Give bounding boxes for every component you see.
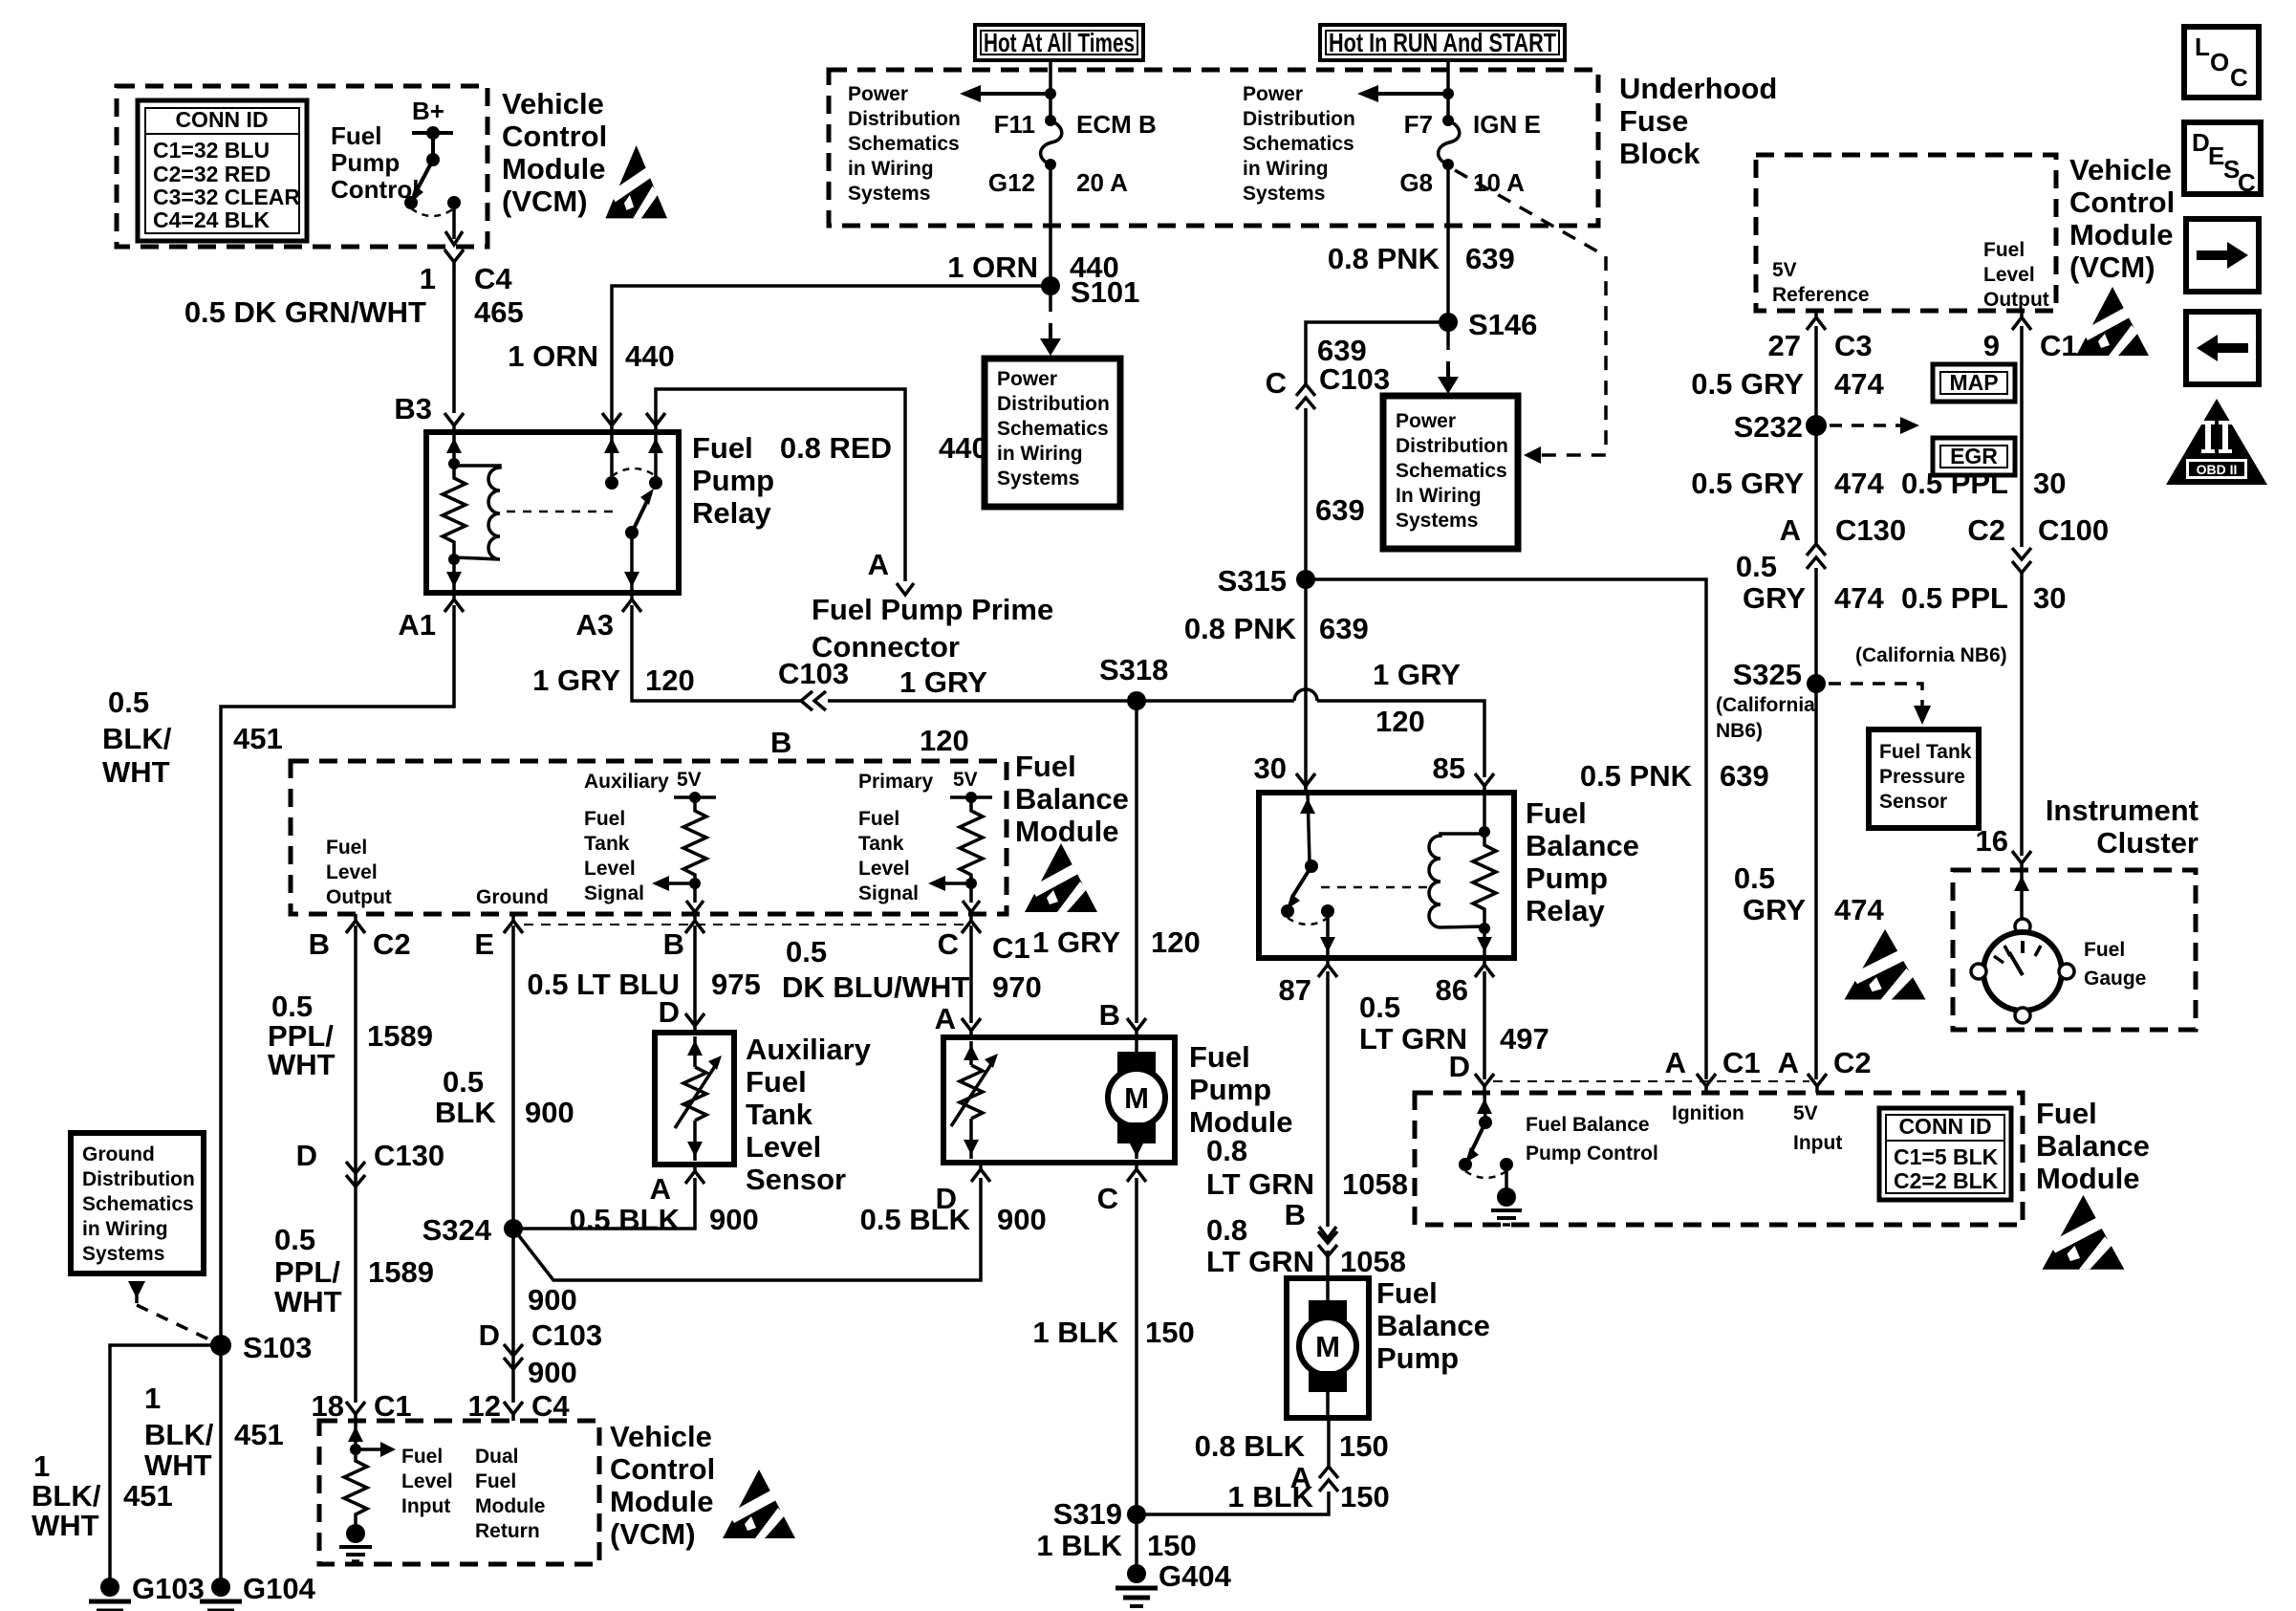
svg-text:Ground: Ground (82, 1143, 155, 1165)
svg-text:S319: S319 (1053, 1497, 1122, 1531)
svg-text:975: 975 (711, 968, 761, 1001)
fuel pump motor (1135, 1037, 1138, 1059)
svg-text:A: A (1778, 1046, 1799, 1079)
svg-text:Fuel: Fuel (331, 121, 381, 150)
svg-text:Control: Control (610, 1452, 715, 1486)
svg-text:Pump: Pump (1526, 861, 1608, 895)
wire 497 LT GRN (relay 86 to module D) (1483, 971, 1486, 1079)
box Power Distribution Schematics In Wiring Systems (right) (1383, 396, 1518, 549)
svg-text:in Wiring: in Wiring (997, 443, 1083, 465)
svg-text:B: B (770, 726, 791, 759)
svg-text:30: 30 (1254, 751, 1287, 785)
svg-text:Systems: Systems (997, 468, 1079, 490)
module box Instrument Cluster (dashed) (1953, 870, 2196, 1030)
svg-text:NB6): NB6) (1716, 720, 1763, 742)
svg-text:Vehicle: Vehicle (502, 87, 604, 120)
svg-text:Signal: Signal (858, 882, 919, 904)
svg-text:Fuel: Fuel (1015, 750, 1076, 783)
wire 120 GRY from A1 down-left (221, 605, 454, 1340)
pin A aux sensor (685, 1165, 704, 1184)
svg-text:(VCM): (VCM) (610, 1517, 696, 1551)
svg-text:639: 639 (1319, 612, 1369, 645)
svg-text:A: A (1290, 1461, 1311, 1494)
svg-text:474: 474 (1834, 893, 1884, 926)
svg-text:639: 639 (1720, 759, 1769, 793)
box arrow right (2186, 219, 2259, 292)
module box Fuel Pump Module (943, 1037, 1175, 1163)
svg-text:0.8 BLK: 0.8 BLK (1195, 1429, 1306, 1463)
box Power Distribution Schematics in Wiring Systems (left) (985, 359, 1120, 507)
svg-text:B+: B+ (412, 97, 444, 125)
svg-text:Fuel: Fuel (2036, 1097, 2097, 1130)
resistor (FBP relay) (1473, 834, 1496, 926)
branch arrow left (IGN E) (1378, 92, 1448, 96)
svg-text:Auxiliary: Auxiliary (746, 1033, 872, 1066)
svg-text:C103: C103 (531, 1318, 602, 1352)
svg-text:Fuel: Fuel (1189, 1040, 1250, 1074)
svg-text:1 ORN: 1 ORN (508, 339, 598, 373)
svg-text:Pump: Pump (1376, 1341, 1459, 1375)
hop over 639 wire (1294, 689, 1317, 701)
label Fuel Level Output (VCM) (1983, 239, 2049, 311)
svg-text:900: 900 (528, 1283, 577, 1317)
pin 27 C3 (1807, 311, 1826, 330)
svg-text:0.5: 0.5 (1734, 861, 1775, 895)
wire label 0.5 BLK/WHT 451 (102, 686, 283, 789)
svg-text:in Wiring: in Wiring (82, 1218, 168, 1240)
svg-text:0.5 BLK: 0.5 BLK (570, 1203, 681, 1236)
wire 1058 LT GRN (relay 87 to pump B) (1326, 971, 1330, 1227)
dashed reference line to S103 (137, 1305, 215, 1342)
box MAP (1933, 364, 2015, 402)
svg-text:Module: Module (610, 1485, 714, 1518)
svg-text:A: A (868, 548, 889, 581)
svg-text:Power: Power (848, 83, 908, 105)
svg-text:1 GRY: 1 GRY (1032, 925, 1120, 959)
box Ground Distribution Schematics in Wiring Systems (71, 1133, 204, 1274)
ESD symbol (instrument cluster) (1844, 929, 1925, 999)
svg-text:0.8 PNK: 0.8 PNK (1328, 242, 1440, 275)
svg-text:WHT: WHT (144, 1448, 212, 1482)
svg-text:Signal: Signal (584, 882, 644, 904)
svg-text:150: 150 (1339, 1429, 1389, 1463)
svg-text:1 BLK: 1 BLK (1032, 1316, 1118, 1349)
svg-text:Balance: Balance (1526, 829, 1639, 862)
svg-text:0.5: 0.5 (274, 1223, 315, 1256)
svg-text:1 GRY: 1 GRY (532, 664, 620, 697)
wire label 0.5 LT GRN 497 (1359, 991, 1549, 1056)
wire label 0.8 LT GRN 1058 (87) (1206, 1134, 1408, 1201)
svg-text:30: 30 (2033, 581, 2066, 615)
node S318 (1127, 691, 1146, 710)
connector A (fuel balance pump) (1319, 1467, 1338, 1491)
svg-text:A: A (1780, 513, 1801, 547)
wire label 0.5 GRY 474 (4) (1734, 861, 1885, 926)
svg-text:Distribution: Distribution (82, 1168, 195, 1190)
svg-text:B3: B3 (394, 392, 432, 425)
svg-text:0.5: 0.5 (1736, 550, 1777, 583)
arrow below ground distribution box (128, 1281, 145, 1298)
svg-text:A3: A3 (575, 608, 614, 642)
svg-text:Vehicle: Vehicle (610, 1420, 712, 1453)
svg-text:C: C (938, 927, 959, 961)
relay box Fuel Balance Pump Relay (1259, 793, 1514, 958)
svg-text:A: A (650, 1172, 671, 1206)
svg-text:Distribution: Distribution (1396, 435, 1508, 457)
svg-text:C2: C2 (373, 927, 411, 961)
svg-text:Input: Input (1793, 1132, 1842, 1154)
svg-text:WHT: WHT (102, 755, 170, 789)
svg-text:OBD II: OBD II (2197, 462, 2238, 477)
node S325 (1807, 674, 1826, 693)
svg-text:C130: C130 (1835, 513, 1906, 547)
svg-text:Level: Level (858, 858, 910, 880)
svg-text:Balance: Balance (1376, 1309, 1490, 1342)
svg-text:BLK: BLK (435, 1096, 496, 1129)
label Power Distribution Schematics (right, in fuse block) (1243, 83, 1355, 205)
svg-text:Level: Level (746, 1130, 821, 1164)
svg-text:WHT: WHT (268, 1048, 336, 1081)
svg-text:150: 150 (1340, 1480, 1390, 1513)
svg-text:DK BLU/WHT: DK BLU/WHT (782, 970, 969, 1004)
svg-text:0.8 PNK: 0.8 PNK (1184, 612, 1297, 645)
svg-text:C103: C103 (1319, 362, 1390, 396)
svg-text:900: 900 (997, 1203, 1047, 1236)
svg-text:Fuel: Fuel (746, 1065, 807, 1099)
resistor (relay suppression) (443, 464, 466, 559)
svg-text:Sensor: Sensor (1879, 791, 1947, 813)
ESD symbol (VCM bottom) (723, 1469, 795, 1538)
wire S319 to G404 (1135, 1514, 1138, 1565)
svg-text:Fuel: Fuel (2084, 939, 2125, 961)
svg-text:F7: F7 (1404, 110, 1433, 139)
svg-text:Fuel: Fuel (401, 1446, 443, 1468)
ground G104 (200, 1578, 242, 1611)
svg-text:0.5 GRY: 0.5 GRY (1691, 367, 1804, 401)
wire label 1 BLK/WHT 451 (G103 leg) (32, 1449, 173, 1542)
switch fuel balance pump control (1459, 1093, 1522, 1225)
svg-text:1 GRY: 1 GRY (899, 665, 987, 699)
module box VCM top-right (dashed) (1756, 155, 2056, 311)
svg-text:Balance: Balance (1015, 782, 1129, 816)
svg-text:C100: C100 (2038, 513, 2109, 547)
svg-text:C1: C1 (992, 931, 1030, 965)
svg-text:WHT: WHT (32, 1509, 99, 1542)
svg-text:1589: 1589 (367, 1019, 433, 1053)
svg-text:Distribution: Distribution (1243, 108, 1355, 130)
wire 900 BLK (E to S324) (511, 925, 515, 1229)
module box Fuel Balance Module bottom (dashed) (1415, 1093, 2023, 1225)
svg-text:Tank: Tank (858, 833, 904, 855)
wire 474 GRY (S325 to module A/C2) (1814, 684, 1818, 1079)
svg-text:Control: Control (2069, 185, 2175, 219)
svg-text:A1: A1 (398, 608, 436, 642)
svg-text:474: 474 (1834, 467, 1884, 500)
wire 120 GRY S318 down to fuel pump module pin B (1135, 701, 1138, 1023)
svg-text:L: L (2195, 33, 2210, 61)
svg-text:18: 18 (312, 1389, 344, 1423)
svg-text:Output: Output (1983, 289, 2049, 311)
wire 150 BLK (C to S319) (1135, 1178, 1138, 1514)
fuel balance pump motor (1326, 1278, 1330, 1308)
svg-text:Pressure: Pressure (1879, 766, 1965, 788)
svg-text:Schematics: Schematics (997, 418, 1109, 440)
ground G404 (1116, 1564, 1158, 1606)
svg-text:Fuel: Fuel (475, 1470, 516, 1492)
svg-text:Fuel: Fuel (584, 808, 625, 830)
wire label 0.5 GRY 474 (3) (1736, 550, 1885, 615)
label Fuel Balance Module (1015, 750, 1129, 848)
svg-text:B: B (663, 927, 684, 961)
svg-text:Pump: Pump (331, 148, 400, 177)
svg-text:Balance: Balance (2036, 1129, 2150, 1163)
svg-text:Hot In RUN And START: Hot In RUN And START (1329, 28, 1556, 57)
dashed actuation link (FBP relay) (1321, 886, 1428, 889)
label Power Distribution Schematics (left, in fuse block) (848, 83, 961, 205)
wire 970 DK BLU/WHT (pin C/C1 to module A) (969, 925, 973, 1023)
svg-text:C: C (1097, 1182, 1118, 1215)
svg-text:Level: Level (1983, 264, 2035, 286)
svg-text:Schematics: Schematics (1243, 133, 1354, 155)
svg-text:D: D (296, 1139, 317, 1172)
node S319 (1127, 1505, 1146, 1524)
svg-text:C: C (2238, 168, 2256, 197)
svg-text:Systems: Systems (1243, 183, 1325, 205)
svg-text:Systems: Systems (1396, 510, 1478, 532)
svg-text:Relay: Relay (1526, 894, 1605, 927)
pin B (aux signal) (685, 914, 704, 933)
svg-text:S324: S324 (422, 1213, 492, 1247)
svg-text:BLK/: BLK/ (102, 722, 172, 755)
label Auxiliary Fuel Tank Level Sensor (746, 1033, 872, 1196)
svg-text:0.8 RED: 0.8 RED (780, 431, 892, 465)
svg-text:Reference: Reference (1772, 284, 1870, 306)
svg-text:27: 27 (1768, 329, 1801, 362)
svg-text:A: A (1665, 1046, 1686, 1079)
svg-text:G404: G404 (1159, 1559, 1232, 1593)
wire 975 LT BLU (pin B to sensor D) (693, 925, 697, 1023)
svg-text:Block: Block (1619, 137, 1700, 170)
wire label 0.5 DK BLU/WHT 970 (782, 935, 1042, 1004)
svg-text:S232: S232 (1734, 410, 1803, 444)
svg-text:in Wiring: in Wiring (848, 158, 934, 180)
fuel gauge (1971, 870, 2074, 1023)
svg-text:0.8: 0.8 (1206, 1134, 1247, 1167)
wire fuse to S146 (1446, 164, 1450, 322)
dashed arrow S325 to fuel tank pressure sensor (1829, 684, 1922, 706)
svg-text:0.5 LT BLU: 0.5 LT BLU (527, 968, 680, 1001)
svg-text:474: 474 (1834, 367, 1884, 401)
label Fuel Balance Module (bottom) (2036, 1097, 2150, 1195)
svg-text:1589: 1589 (368, 1255, 434, 1289)
svg-text:0.5 DK GRN/WHT: 0.5 DK GRN/WHT (184, 295, 426, 329)
branch arrow left (ECM B) (981, 92, 1051, 96)
wire 1589 PPL/WHT (B/C2 to VCM 18) (354, 925, 357, 1403)
box DESC (2184, 122, 2261, 197)
svg-text:Fuel: Fuel (326, 837, 367, 859)
svg-text:LT GRN: LT GRN (1206, 1245, 1314, 1278)
svg-text:Underhood: Underhood (1619, 72, 1777, 105)
svg-text:S103: S103 (243, 1331, 312, 1364)
svg-text:S146: S146 (1468, 308, 1537, 341)
pin A3 (622, 593, 641, 612)
wire aux sensor A to S324 (513, 1178, 695, 1229)
wire 440 RED from relay to fuel pump prime connector (656, 389, 905, 581)
dashed arrow S232 to MAP/EGR (1830, 424, 1900, 427)
svg-text:16: 16 (1976, 824, 2008, 858)
svg-text:Fuel: Fuel (692, 431, 753, 465)
svg-text:Instrument: Instrument (2046, 794, 2199, 827)
svg-text:85: 85 (1433, 751, 1465, 785)
svg-text:5V: 5V (953, 769, 978, 791)
svg-text:Module: Module (502, 152, 606, 185)
wire 639 S315 to relay pin 30 (with hop over GRY wire) (1304, 579, 1308, 793)
svg-text:C103: C103 (778, 657, 849, 690)
svg-text:1 BLK: 1 BLK (1036, 1529, 1122, 1562)
svg-text:120: 120 (645, 664, 695, 697)
svg-text:C1: C1 (2040, 329, 2078, 362)
svg-text:A: A (935, 1002, 956, 1035)
wire 474 GRY (C130 to S325) (1814, 568, 1818, 684)
svg-text:1 ORN: 1 ORN (947, 250, 1038, 284)
svg-text:Relay: Relay (692, 496, 771, 530)
wire label 0.8 LT GRN 1058 (pump B) (1206, 1213, 1406, 1278)
svg-text:0.5 PNK: 0.5 PNK (1580, 759, 1693, 793)
svg-text:C4: C4 (474, 262, 512, 295)
node S232 (1806, 415, 1827, 436)
fuse F7 IGN E 10A (1439, 115, 1460, 170)
svg-text:1058: 1058 (1342, 1167, 1408, 1201)
svg-text:G103: G103 (132, 1572, 205, 1605)
svg-text:Dual: Dual (475, 1446, 519, 1468)
symbol OBD II (2166, 399, 2267, 485)
svg-text:C1: C1 (1722, 1046, 1761, 1079)
pin 86 (1475, 958, 1494, 977)
svg-text:D: D (1449, 1050, 1470, 1083)
label Fuel Balance Pump (1376, 1276, 1490, 1375)
relay coil branch (pin 85 side) (1483, 793, 1486, 958)
svg-text:B: B (1285, 1198, 1306, 1231)
svg-text:Fuel: Fuel (1526, 796, 1587, 830)
svg-text:1058: 1058 (1340, 1245, 1406, 1278)
svg-text:900: 900 (528, 1356, 577, 1389)
svg-text:Module: Module (2069, 218, 2174, 251)
svg-text:Level: Level (326, 861, 378, 883)
pin C C1 (962, 914, 981, 933)
wire S324 diagonal to primary sensor D (513, 1178, 981, 1280)
svg-text:(California NB6): (California NB6) (1855, 644, 2007, 666)
svg-text:C1: C1 (374, 1389, 412, 1423)
svg-text:BLK/: BLK/ (32, 1479, 101, 1513)
dashed actuation link (507, 511, 619, 513)
node S324 (504, 1219, 523, 1238)
svg-text:Schematics: Schematics (82, 1193, 194, 1215)
svg-text:C3=32 CLEAR: C3=32 CLEAR (153, 185, 300, 209)
svg-text:Fuel Balance: Fuel Balance (1526, 1114, 1650, 1136)
svg-text:Systems: Systems (82, 1243, 164, 1265)
svg-text:86: 86 (1436, 973, 1468, 1007)
svg-text:GRY: GRY (1743, 581, 1806, 615)
module box Underhood Fuse Block (dashed) (829, 70, 1598, 226)
svg-text:Return: Return (475, 1520, 540, 1542)
relay box Fuel Pump Relay (426, 432, 679, 593)
pin A1 (444, 593, 464, 612)
node S146 (1439, 313, 1458, 332)
svg-text:Pump: Pump (1189, 1073, 1271, 1106)
svg-text:Output: Output (326, 886, 392, 908)
svg-text:1: 1 (144, 1382, 161, 1415)
svg-text:Fuse: Fuse (1619, 104, 1688, 138)
svg-text:1: 1 (33, 1449, 50, 1483)
svg-text:Pump: Pump (692, 464, 774, 497)
svg-text:CONN ID: CONN ID (175, 107, 268, 132)
svg-text:Pump Control: Pump Control (1526, 1143, 1658, 1165)
variable resistor (aux sensor) (675, 1036, 722, 1161)
svg-text:C2: C2 (1967, 513, 2005, 547)
ESD symbol (VCM top-right) (2076, 287, 2149, 356)
label Dual Fuel Module Return (475, 1446, 546, 1542)
label Fuel Pump Control (331, 121, 419, 204)
pin E (504, 914, 523, 933)
wire S103 branch to G103 (110, 1345, 221, 1579)
svg-text:Cluster: Cluster (2096, 826, 2199, 860)
svg-text:1 GRY: 1 GRY (1373, 658, 1461, 691)
node S315 (1296, 570, 1315, 589)
svg-text:20 A: 20 A (1076, 168, 1128, 197)
svg-text:LT GRN: LT GRN (1206, 1167, 1314, 1201)
primary fuel tank level pullup network (928, 792, 992, 912)
svg-text:440: 440 (625, 339, 675, 373)
svg-text:120: 120 (1151, 925, 1201, 959)
svg-text:0.5 GRY: 0.5 GRY (1691, 467, 1804, 500)
svg-text:F11: F11 (994, 110, 1035, 139)
svg-text:Schematics: Schematics (848, 133, 960, 155)
svg-text:Module: Module (1015, 815, 1119, 848)
svg-text:WHT: WHT (274, 1285, 342, 1318)
svg-text:C1=32 BLU: C1=32 BLU (153, 138, 270, 163)
svg-text:C2=2 BLK: C2=2 BLK (1894, 1168, 1999, 1193)
svg-text:87: 87 (1279, 973, 1311, 1007)
svg-text:451: 451 (233, 722, 283, 755)
svg-text:970: 970 (992, 970, 1042, 1004)
svg-text:CONN ID: CONN ID (1898, 1114, 1991, 1139)
svg-text:Power: Power (1396, 410, 1456, 432)
svg-text:In Wiring: In Wiring (1396, 485, 1482, 507)
wire 474 GRY (27/C3 to S232) (1814, 326, 1818, 425)
svg-text:C4: C4 (531, 1389, 570, 1423)
ESD symbol (fuel balance module bottom) (2043, 1195, 2125, 1270)
svg-text:Schematics: Schematics (1396, 460, 1507, 482)
relay coil (FBP) (1429, 834, 1484, 927)
wire fuse to S101 (1049, 164, 1052, 286)
relay switch (FBP relay) (1281, 793, 1335, 958)
svg-text:Vehicle: Vehicle (2069, 153, 2172, 186)
svg-text:Tank: Tank (584, 833, 630, 855)
switch: fuel pump control (VCM driver) (404, 126, 463, 245)
box Hot At All Times (975, 25, 1143, 60)
svg-text:Ignition: Ignition (1672, 1102, 1744, 1124)
svg-text:MAP: MAP (1949, 370, 1998, 395)
label Auxiliary Fuel Tank Level Signal (584, 771, 669, 904)
ESD symbol (VCM top-left) (605, 145, 667, 218)
wire label 0.5 BLK 900 (E) (435, 1065, 574, 1129)
svg-text:Fuel: Fuel (1983, 239, 2025, 261)
svg-text:440: 440 (939, 431, 988, 465)
assembly boundary (thin dashed) (1493, 1080, 1809, 1082)
svg-text:G8: G8 (1399, 168, 1433, 197)
svg-text:D: D (936, 1182, 957, 1215)
svg-text:B: B (1099, 998, 1120, 1032)
